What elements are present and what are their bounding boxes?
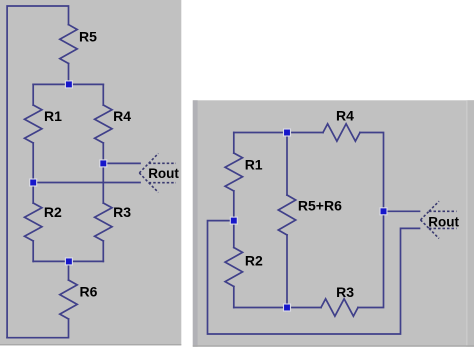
wire R4 bottom through node to R3: [102, 143, 104, 203]
wire R4 to corner and down: [360, 133, 384, 212]
wire R6 bottom loop: [7, 319, 68, 338]
svg-text:R3: R3: [113, 204, 131, 220]
node junction right port: [380, 208, 387, 215]
svg-text:R1: R1: [44, 108, 62, 124]
wire R1 bottom to node: [32, 143, 34, 183]
wire node left and outer loop bottom: [208, 221, 420, 334]
resistor R4 right: [323, 124, 360, 141]
node junction right top: [284, 129, 291, 136]
wire R5+R6 branch top: [286, 133, 288, 196]
svg-text:Rout: Rout: [148, 166, 179, 181]
wire R5 bottom to node: [68, 64, 70, 85]
wire bottom bus y261: [33, 260, 103, 262]
svg-text:R5: R5: [79, 28, 97, 44]
node junction left mid-right: [100, 160, 107, 167]
node junction left top: [65, 81, 72, 88]
wire Rout top tail: [103, 162, 140, 164]
resistor R1 right: [225, 153, 242, 191]
wire node down to R2: [233, 221, 235, 248]
wire R2 bottom: [32, 241, 34, 261]
node junction right left: [230, 217, 237, 224]
wire right branch to R4: [102, 84, 104, 105]
wire Rout top tail right: [384, 210, 420, 212]
wire R2 bottom: [233, 287, 235, 308]
wire bottom bus right panel: [234, 307, 321, 309]
svg-text:R6: R6: [80, 283, 98, 299]
wire R3 bottom: [102, 241, 104, 261]
port Rout right (dashed arrow): [421, 201, 457, 238]
resistor R6: [60, 280, 77, 319]
svg-text:R3: R3: [336, 284, 354, 300]
resistor R5+R6: [278, 195, 295, 235]
svg-text:R2: R2: [245, 253, 263, 269]
right schematic panel background: [193, 100, 474, 346]
wire R1 bottom to node: [233, 191, 235, 221]
wire node to R2: [32, 183, 34, 204]
wire right panel top bus: [234, 132, 323, 134]
wire R5+R6 bottom: [286, 235, 288, 308]
resistor R5: [60, 25, 77, 64]
wire horizontal bus y84: [33, 83, 103, 85]
resistor R1: [25, 105, 42, 143]
svg-text:Rout: Rout: [428, 214, 459, 229]
svg-text:R4: R4: [336, 108, 354, 124]
svg-text:R2: R2: [44, 204, 62, 220]
wire R1 branch down: [233, 133, 235, 154]
svg-text:R5+R6: R5+R6: [298, 198, 342, 214]
wire left branch to R1: [32, 84, 34, 105]
resistor R2: [25, 203, 42, 241]
resistor R2 right: [225, 248, 242, 287]
resistor R3: [95, 203, 112, 241]
wire R3 to right riser: [358, 211, 384, 307]
svg-text:R1: R1: [245, 157, 263, 173]
resistor R3 right: [321, 299, 358, 316]
node junction left bottom: [65, 258, 72, 265]
wire node to R6: [68, 261, 70, 280]
node junction right bottom: [284, 304, 291, 311]
svg-text:R4: R4: [113, 108, 131, 124]
node junction left mid-left: [30, 179, 37, 186]
left schematic panel background: [0, 0, 181, 345]
resistor R4: [95, 105, 112, 143]
wire left outer loop top: [7, 6, 68, 338]
wire mid horizontal to Rout bottom tail: [33, 182, 140, 184]
port Rout left (dashed arrow): [139, 153, 176, 192]
